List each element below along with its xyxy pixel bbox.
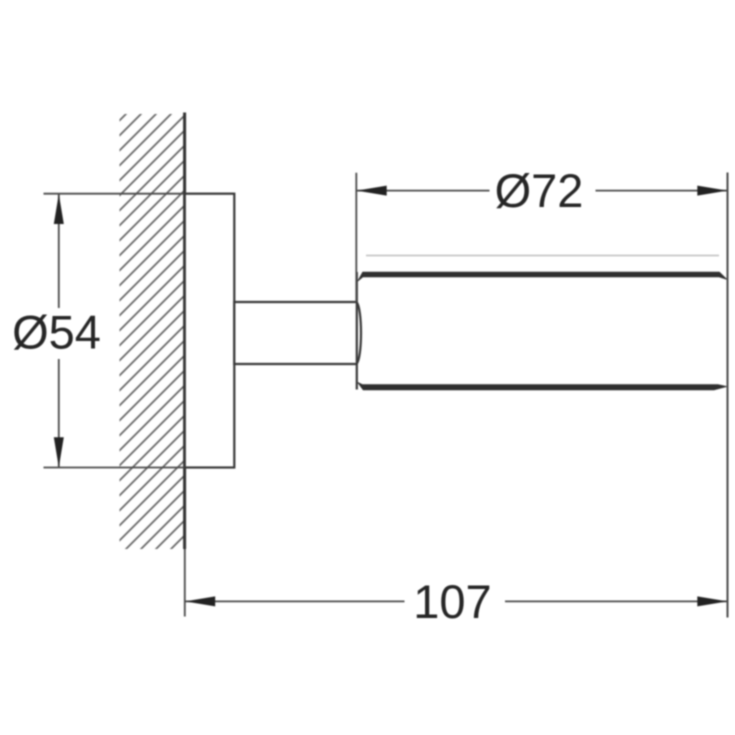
- holder cylinder left edge: [356, 272, 358, 390]
- dim Ø54 line upper segment: [58, 194, 60, 308]
- dim Ø54 line lower segment: [58, 359, 60, 467]
- holder cylinder top thick edge: [357, 272, 729, 283]
- svg-text:Ø54: Ø54: [12, 306, 101, 359]
- holder cylinder bottom thick edge: [357, 382, 729, 391]
- dim Ø72 line right segment: [596, 190, 728, 192]
- dim Ø72 line left segment: [357, 190, 490, 192]
- right vertical extension line (shared by Ø72 and 107): [727, 173, 729, 618]
- dim Ø54 arrow up: [54, 194, 64, 224]
- dim Ø72 arrow left: [357, 186, 387, 196]
- dim 107 line right segment: [505, 600, 727, 602]
- dim Ø54 extension top: [44, 193, 235, 195]
- svg-text:Ø72: Ø72: [495, 164, 584, 217]
- dim Ø54 arrow down: [54, 437, 64, 467]
- stem fillet arc into holder: [357, 302, 362, 364]
- holder faint top highlight line: [366, 255, 719, 257]
- svg-text:107: 107: [413, 575, 491, 628]
- dim Ø54 extension bottom: [44, 467, 235, 469]
- dim Ø72 extension left: [355, 173, 357, 302]
- wall line: [183, 113, 186, 550]
- stem (arm between plate and holder): [234, 302, 356, 364]
- dim 107 arrow left: [185, 596, 215, 606]
- wall plate (Ø54 flange, side view): [185, 194, 235, 468]
- wall extension line (bottom, thin): [184, 549, 186, 617]
- dim 107 line left segment: [185, 600, 405, 602]
- dim Ø72 arrow right: [697, 186, 727, 196]
- wall hatching: [120, 114, 185, 549]
- dim 107 arrow right: [697, 596, 727, 606]
